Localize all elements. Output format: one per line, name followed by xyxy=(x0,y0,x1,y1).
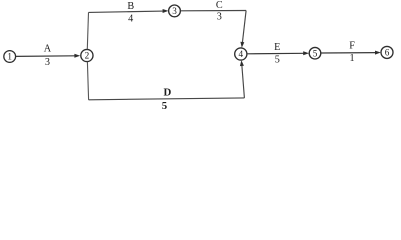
wire C (3 to top-right elbow) xyxy=(181,10,246,12)
wire up from bottom-right elbow into node 4 xyxy=(240,60,245,98)
svg-text:6: 6 xyxy=(385,48,390,58)
svg-text:A: A xyxy=(44,44,52,55)
svg-text:5: 5 xyxy=(162,100,167,112)
wire E (4 to 5) xyxy=(247,51,309,55)
svg-text:E: E xyxy=(274,42,280,53)
wire down from top-right elbow into node 4 xyxy=(240,11,246,48)
wire from node 2 down to bottom-left elbow xyxy=(87,62,88,100)
svg-text:2: 2 xyxy=(85,51,90,61)
node 6 xyxy=(381,46,393,58)
svg-text:D: D xyxy=(163,86,171,98)
svg-text:1: 1 xyxy=(350,53,355,64)
svg-text:5: 5 xyxy=(313,48,318,58)
node 5 xyxy=(309,47,321,59)
wire B (elbow to 3) xyxy=(89,9,169,13)
wire from node 2 up to top-left elbow xyxy=(87,12,88,49)
node 3 xyxy=(169,5,181,17)
node 2 xyxy=(81,49,93,61)
svg-text:4: 4 xyxy=(128,13,133,24)
svg-text:F: F xyxy=(349,40,355,51)
node 1 xyxy=(4,51,16,63)
svg-text:3: 3 xyxy=(45,57,50,68)
wire D (bottom-left elbow to bottom-right elbow) xyxy=(89,98,245,100)
svg-text:1: 1 xyxy=(7,52,12,62)
svg-text:4: 4 xyxy=(239,49,244,59)
svg-text:C: C xyxy=(216,0,223,11)
svg-text:3: 3 xyxy=(172,6,177,16)
svg-text:5: 5 xyxy=(275,55,280,66)
wire F (5 to 6) xyxy=(321,51,381,55)
wire A (1 to 2) xyxy=(16,54,80,58)
node 4 xyxy=(235,48,247,60)
svg-text:3: 3 xyxy=(217,12,222,23)
svg-text:B: B xyxy=(127,1,134,12)
